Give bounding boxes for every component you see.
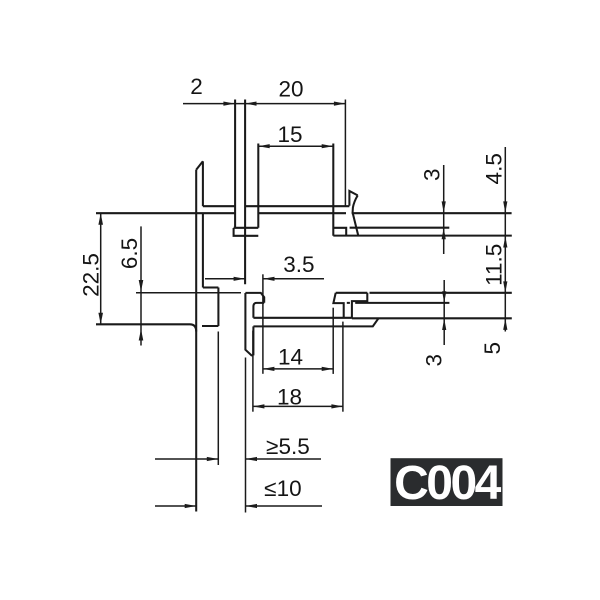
lower profile wall outer edge <box>245 293 253 355</box>
svg-text:11.5: 11.5 <box>481 244 506 286</box>
arrow >=5.5 right <box>246 457 258 461</box>
fin left edge <box>234 100 236 229</box>
dim line 3 lower vertical <box>443 280 445 345</box>
svg-text:3: 3 <box>421 354 446 367</box>
extension line 6.5 top <box>136 292 241 294</box>
dim line 2 and 20 <box>183 103 345 105</box>
upper blade bottom line <box>333 235 512 237</box>
lower blade internal step line <box>347 302 450 304</box>
svg-text:22.5: 22.5 <box>79 253 104 297</box>
upper profile web bottom line <box>96 212 512 214</box>
upper profile top surface <box>203 205 350 207</box>
C004 part number box <box>391 458 503 506</box>
upper profile wall outer edge <box>195 170 197 512</box>
svg-text:6.5: 6.5 <box>117 238 142 269</box>
upper wall bottom ledge with fillet <box>96 324 196 331</box>
arrow 3 lower top <box>442 291 446 303</box>
upper left foot inner edge <box>257 144 259 228</box>
upper profile wall chamfer <box>196 161 203 170</box>
svg-text:5: 5 <box>480 342 505 355</box>
lower blade bottom line <box>352 317 512 319</box>
dim line <=10 <box>155 505 322 507</box>
arrow <=10 left <box>185 504 197 508</box>
svg-text:≤10: ≤10 <box>264 476 301 501</box>
extension line 3.5/14 right <box>262 274 264 374</box>
upper profile wall inner edge top <box>202 161 204 206</box>
extension line 18 right <box>342 322 344 412</box>
dim line >=5.5 <box>155 458 321 460</box>
upper right foot outline <box>333 228 346 236</box>
lower lip outline <box>245 293 264 307</box>
arrow >=5.5 left <box>207 457 219 461</box>
arrow 2 left <box>223 102 235 106</box>
dim line 3.5 <box>205 278 324 280</box>
arrow 5 bottom <box>503 318 507 330</box>
upper wall bump bottom <box>202 325 218 327</box>
arrow 18 left <box>253 404 265 408</box>
upper wall step vertical <box>217 288 219 327</box>
upper left foot outline <box>234 228 259 236</box>
arrow 20 left <box>245 102 257 106</box>
extension line >=5.5 left <box>217 332 219 466</box>
upper hook flag right curve <box>353 195 359 235</box>
lower profile wall inner edge <box>252 307 254 356</box>
arrow 14 right <box>322 367 334 371</box>
upper wall step horizontal <box>203 286 219 288</box>
arrow 3.5 right <box>263 277 275 281</box>
svg-text:18: 18 <box>277 385 302 410</box>
arrow 3 upper top <box>442 201 446 213</box>
dim line 15 <box>258 145 333 147</box>
dim line 14 <box>263 368 333 370</box>
upper blade internal step line <box>350 227 450 229</box>
svg-text:3: 3 <box>420 169 445 182</box>
arrow 6.5 top <box>139 280 144 292</box>
dim line 4.5 / 11.5 / 5 vertical <box>504 147 506 332</box>
dim line 22.5 vertical <box>100 213 102 324</box>
arrow 22.5 bottom <box>98 313 103 325</box>
arrow <=10 right <box>246 504 258 508</box>
lower channel floor bottom <box>253 318 378 326</box>
arrow 4.5 top <box>503 201 507 213</box>
arrow 18 right <box>331 404 343 408</box>
svg-text:2: 2 <box>190 74 203 99</box>
fin right edge <box>244 100 246 285</box>
upper hook flag left edge <box>349 191 357 206</box>
lower second lip outline <box>333 293 343 317</box>
svg-text:15: 15 <box>277 122 302 147</box>
arrow 6.5 bottom <box>139 329 144 341</box>
lower blade top surface <box>336 292 512 294</box>
arrow 15 left <box>258 144 270 148</box>
svg-text:3.5: 3.5 <box>283 252 314 277</box>
dim line 3 upper vertical <box>443 165 445 254</box>
arrow 15 right <box>322 144 334 148</box>
extension line >=5.5 / <=10 right <box>245 358 247 513</box>
svg-text:20: 20 <box>278 77 303 102</box>
arrow 4.5/11.5 mid <box>503 236 507 248</box>
arrow 22.5 top <box>98 213 103 225</box>
upper profile wall inner edge mid <box>202 213 204 288</box>
dim line 6.5 vertical <box>140 226 142 345</box>
arrow 3 lower bottom <box>442 319 446 331</box>
arrow 3.5 left <box>234 277 246 281</box>
arrow 11.5/5 bottom <box>503 281 507 293</box>
svg-text:C004: C004 <box>394 457 502 510</box>
extension line 14 right <box>332 308 334 374</box>
extension line 20 right <box>344 100 346 206</box>
upper right foot inner edge <box>332 144 334 236</box>
extension line 18 left <box>252 331 254 412</box>
svg-text:14: 14 <box>278 344 303 369</box>
arrow 20 right <box>334 102 346 106</box>
svg-text:4.5: 4.5 <box>481 153 506 184</box>
arrow 14 left <box>263 367 275 371</box>
svg-text:≥5.5: ≥5.5 <box>266 434 310 459</box>
lower channel floor top <box>253 317 352 319</box>
arrow 3 upper bottom <box>442 228 446 240</box>
dim line 18 <box>253 405 343 407</box>
lower hook outline <box>352 293 367 319</box>
upper left foot top edge <box>234 227 259 229</box>
